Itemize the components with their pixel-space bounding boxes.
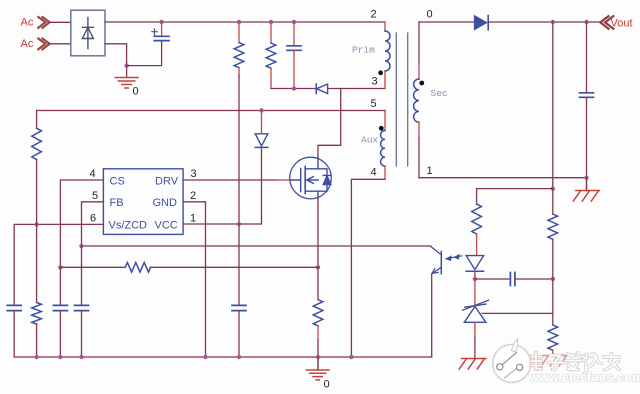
opto LED bbox=[466, 256, 483, 272]
wire CS cap drop bbox=[59, 267, 61, 305]
wire opto emitter down bbox=[431, 274, 433, 357]
wire LED cathode bbox=[474, 271, 476, 279]
transformer T1 primary bbox=[385, 22, 390, 89]
wire ground stub bbox=[126, 66, 128, 77]
aux phase dot bbox=[379, 126, 384, 131]
capacitor CS filter to gnd bbox=[53, 305, 67, 310]
svg-text:Prim: Prim bbox=[352, 45, 375, 56]
wire TL431 ref bbox=[482, 312, 553, 314]
svg-text:2: 2 bbox=[190, 190, 196, 202]
junction bbox=[551, 20, 555, 24]
svg-text:GND: GND bbox=[153, 197, 178, 209]
wire ground rail bottom bbox=[14, 356, 432, 358]
junction bbox=[584, 176, 588, 180]
junction snubber C bottom bbox=[292, 86, 296, 90]
wire FB pin bbox=[82, 202, 104, 246]
opto light arrows bbox=[446, 254, 462, 260]
junction bbox=[237, 222, 241, 226]
svg-text:5: 5 bbox=[92, 190, 98, 202]
junction bbox=[316, 265, 320, 269]
svg-text:4: 4 bbox=[371, 167, 377, 179]
wire to opto resistor bbox=[477, 188, 553, 190]
secondary phase dot bbox=[419, 81, 424, 86]
wire Vout feedback drop bbox=[552, 22, 554, 189]
svg-text:5: 5 bbox=[371, 98, 377, 110]
wire VsZCD pin bbox=[14, 224, 103, 305]
port Vout bbox=[600, 16, 632, 29]
junction bbox=[584, 20, 588, 24]
ground chassis top-right bbox=[573, 178, 599, 201]
capacitor snubber bbox=[287, 22, 301, 89]
ground chassis TL431 bbox=[459, 359, 486, 370]
wire CS pin bbox=[60, 180, 103, 267]
watermark logo bbox=[493, 339, 531, 383]
port Ac 2 bbox=[21, 38, 50, 50]
junction snubber R top bbox=[269, 20, 273, 24]
junction bbox=[124, 63, 128, 67]
svg-text:Ac: Ac bbox=[21, 17, 34, 29]
resistor snubber bbox=[266, 22, 276, 89]
junction bbox=[473, 277, 477, 281]
svg-text:Sec: Sec bbox=[431, 88, 448, 99]
capacitor compensation bbox=[510, 273, 515, 286]
primary phase dot bbox=[378, 70, 383, 75]
wire snubber bottom bbox=[271, 88, 316, 90]
wire output rail bbox=[488, 21, 599, 23]
svg-text:Aux: Aux bbox=[361, 135, 378, 146]
transformer aux winding bbox=[381, 111, 385, 180]
resistor sense bbox=[313, 267, 323, 357]
wire aux sense line bbox=[37, 110, 385, 112]
wire MOSFET drain bbox=[318, 89, 341, 158]
transformer core bbox=[396, 33, 407, 166]
capacitor FB bbox=[75, 305, 89, 310]
junction bbox=[34, 222, 38, 226]
junction dots on rail bbox=[34, 355, 38, 359]
TL431 shunt reference bbox=[463, 279, 489, 359]
svg-text:FB: FB bbox=[110, 197, 124, 209]
svg-text:2: 2 bbox=[371, 9, 377, 21]
junction bbox=[58, 265, 62, 269]
resistor CS filter (horizontal) bbox=[125, 263, 150, 273]
wire CS filter line + resistor bbox=[60, 266, 125, 268]
watermark text CJK (drawn strokes) bbox=[532, 353, 620, 374]
svg-text:Ac: Ac bbox=[21, 38, 34, 50]
svg-text:CS: CS bbox=[110, 175, 125, 187]
wire sec bottom rail bbox=[419, 177, 587, 179]
svg-text:www.elecfans.com: www.elecfans.com bbox=[528, 371, 640, 385]
resistor opto series bbox=[472, 189, 482, 256]
wire divider mid bbox=[552, 279, 554, 313]
bridge rectifier bbox=[71, 10, 105, 56]
wire comp right bbox=[515, 278, 553, 280]
capacitor bulk (polarized) bbox=[127, 22, 169, 66]
wire aux return bbox=[351, 179, 385, 357]
resistor ZCD upper bbox=[32, 111, 42, 225]
junction VCC diode top bbox=[259, 108, 263, 112]
svg-text:3: 3 bbox=[372, 76, 378, 88]
capacitor ZCD bbox=[7, 305, 21, 310]
junction bulk cap top bbox=[159, 20, 163, 24]
resistor divider upper bbox=[548, 189, 558, 279]
svg-text:0: 0 bbox=[324, 379, 330, 391]
svg-text:0: 0 bbox=[133, 86, 139, 98]
resistor ZCD lower bbox=[32, 224, 42, 357]
svg-text:6: 6 bbox=[90, 213, 96, 225]
diode snubber (points left) bbox=[316, 84, 327, 94]
ground chassis right (behind watermark) bbox=[541, 356, 567, 367]
wire VCC pin bbox=[183, 149, 261, 224]
wire DRV to gate bbox=[183, 179, 278, 181]
junction bbox=[551, 186, 555, 190]
junction bbox=[79, 244, 83, 248]
svg-text:Vout: Vout bbox=[611, 18, 633, 30]
svg-text:3: 3 bbox=[191, 168, 197, 180]
wire FB cap drop bbox=[81, 246, 83, 305]
wire diode to pin3 bbox=[328, 88, 385, 90]
wire source down bbox=[317, 199, 319, 268]
junction bbox=[551, 277, 555, 281]
wire comp left bbox=[475, 278, 510, 280]
resistor startup bbox=[234, 22, 244, 75]
diode output (filled) bbox=[474, 16, 488, 30]
IC U1 controller bbox=[103, 169, 183, 235]
wire Ac2 to bridge bbox=[50, 43, 71, 45]
wire FB line bbox=[82, 245, 431, 247]
capacitor VCC bbox=[238, 224, 240, 305]
wire startup R to VCC bbox=[238, 75, 240, 224]
svg-text:DRV: DRV bbox=[155, 175, 179, 187]
opto transistor bbox=[431, 247, 442, 274]
transformer secondary bbox=[414, 22, 419, 178]
resistor divider lower bbox=[548, 313, 558, 355]
junction startup R top bbox=[237, 20, 241, 24]
wire GND pin bbox=[183, 202, 205, 357]
svg-text:1: 1 bbox=[190, 213, 196, 225]
wire bus rail top bbox=[105, 21, 385, 23]
capacitor output bbox=[580, 22, 594, 178]
wire bridge bottom out bbox=[105, 44, 127, 66]
svg-text:VCC: VCC bbox=[155, 219, 178, 231]
MOSFET Q1 bbox=[290, 157, 332, 199]
wire sec to output diode bbox=[419, 21, 474, 23]
diode VCC (points down) bbox=[255, 111, 268, 150]
svg-text:4: 4 bbox=[90, 168, 96, 180]
ground 0 earth bottom bbox=[306, 357, 329, 380]
ground 0 earth top-left bbox=[115, 78, 138, 89]
junction snubber C top bbox=[292, 20, 296, 24]
svg-text:0: 0 bbox=[427, 9, 433, 21]
port Ac 1 bbox=[21, 17, 50, 29]
wire Ac1 to bridge bbox=[50, 21, 71, 23]
svg-text:Vs/ZCD: Vs/ZCD bbox=[109, 219, 148, 231]
svg-text:1: 1 bbox=[427, 165, 433, 177]
